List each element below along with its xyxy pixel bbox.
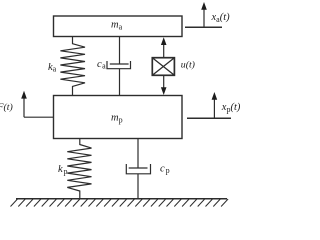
damper c_a piston plate <box>110 63 129 65</box>
damper c_p rod bottom <box>137 174 139 199</box>
ground line <box>16 198 227 200</box>
wire x_p arrow shaft <box>213 99 215 118</box>
svg-text:ca: ca <box>97 59 106 71</box>
mass box m_a <box>54 16 183 37</box>
actuator upper shaft <box>163 44 165 58</box>
svg-text:ma: ma <box>111 20 123 32</box>
svg-text:u(t): u(t) <box>181 60 195 71</box>
svg-text:cp: cp <box>160 163 170 175</box>
wire x_a arrow shaft <box>203 9 205 27</box>
spring k_a <box>60 37 85 96</box>
svg-text:mp: mp <box>111 113 123 125</box>
arrowhead x_p <box>212 92 218 100</box>
damper c_p rod top <box>137 139 139 169</box>
actuator lower shaft <box>163 75 165 89</box>
damper c_a rod top <box>119 37 121 65</box>
arrowhead x_a <box>201 2 207 10</box>
damper c_p cup <box>126 164 150 174</box>
arrowhead actuator up <box>161 37 167 45</box>
arrowhead F(t) <box>21 91 27 99</box>
wire x_a reference line <box>185 26 222 28</box>
svg-text:xp(t): xp(t) <box>221 102 240 114</box>
wire F(t) arrow shaft <box>23 98 25 118</box>
wire x_p reference line <box>187 117 231 119</box>
mass box m_p <box>54 96 183 139</box>
damper c_a cup <box>107 61 131 69</box>
spring k_p <box>67 139 91 199</box>
ground hatching <box>11 199 229 207</box>
svg-text:F(t): F(t) <box>0 102 13 113</box>
actuator box U <box>152 58 174 76</box>
actuator box X diagonals <box>152 58 174 76</box>
damper c_a rod bottom <box>119 69 121 96</box>
svg-text:kp: kp <box>58 164 67 176</box>
svg-text:ka: ka <box>48 62 57 74</box>
damper c_p piston plate <box>129 167 148 169</box>
wire F(t) horizontal <box>24 116 54 118</box>
svg-text:xa(t): xa(t) <box>211 12 231 24</box>
arrowhead actuator down <box>161 87 167 95</box>
